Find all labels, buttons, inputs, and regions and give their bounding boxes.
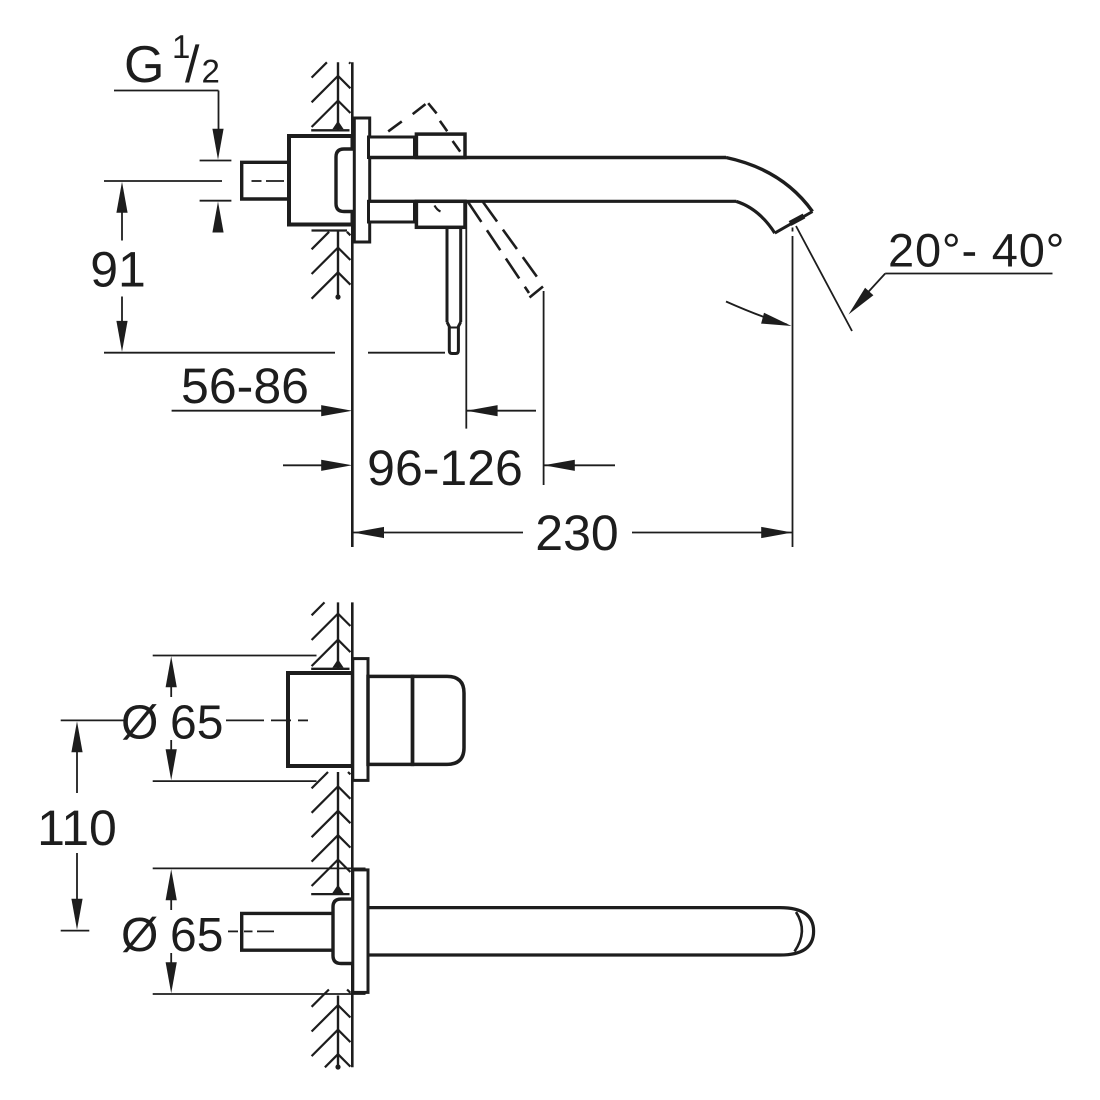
svg-text:230: 230 [535,505,618,561]
svg-text:56-86: 56-86 [181,358,309,414]
svg-text:65: 65 [170,909,223,962]
svg-text:96-126: 96-126 [367,440,523,496]
svg-text:91: 91 [90,242,146,298]
svg-text:/: / [185,36,200,94]
svg-text:G: G [124,36,164,94]
svg-text:65: 65 [170,697,223,750]
svg-text:Ø: Ø [121,697,158,750]
svg-text:Ø: Ø [121,909,158,962]
svg-text:2: 2 [202,52,220,89]
svg-text:20°- 40°: 20°- 40° [888,224,1065,277]
svg-text:110: 110 [37,800,117,856]
